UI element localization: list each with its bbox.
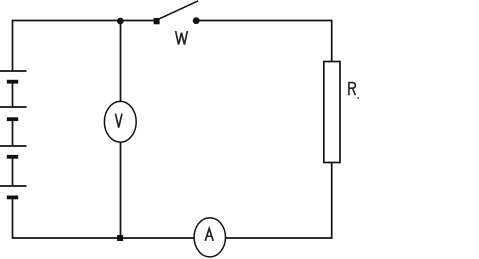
switch W blade (open): [159, 1, 199, 19]
wire battery link cell1-cell2: [12, 82, 14, 108]
node junction top (voltmeter branch / top wire): [117, 18, 124, 25]
ammeter label A: [205, 229, 213, 241]
resistor label R: [349, 83, 356, 96]
battery B1 cell 4: [0, 186, 27, 197]
ammeter U2 circle: [194, 218, 225, 257]
wire battery link cell2-cell3: [12, 119, 14, 146]
wire bottom-right horizontal: [225, 237, 333, 239]
wire voltmeter branch upper: [120, 21, 122, 103]
switch W right contact: [193, 17, 200, 24]
wire top-left horizontal: [12, 20, 155, 22]
wire bottom-left horizontal: [13, 237, 196, 239]
switch label W: [176, 31, 188, 45]
node junction bottom (voltmeter branch / bottom wire): [117, 235, 123, 241]
voltmeter label V: [115, 114, 122, 128]
wire right vertical upper (to resistor top): [331, 20, 333, 62]
battery B1 cell 3: [0, 146, 27, 157]
wire top-right horizontal (switch to right corner): [199, 20, 333, 22]
battery B1 cell 2: [0, 107, 27, 119]
resistor label subscript mark: [357, 97, 359, 99]
voltmeter U1 circle: [104, 101, 136, 142]
battery B1 cell 1: [0, 71, 27, 82]
resistor R rectangle: [324, 62, 340, 163]
wire right vertical lower (resistor to bottom): [331, 163, 333, 239]
wire battery bottom to bottom wire: [12, 198, 14, 239]
switch W left contact: [154, 18, 160, 24]
wire left vertical (top corner to battery): [12, 20, 14, 71]
wire battery link cell3-cell4: [12, 157, 14, 186]
wire voltmeter branch lower: [120, 142, 122, 238]
